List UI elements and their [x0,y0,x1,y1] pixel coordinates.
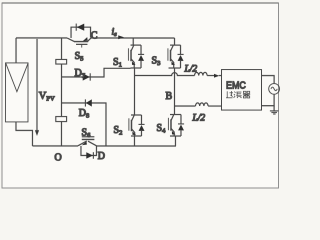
ground [273,106,275,111]
inductor L/2 lower [195,103,208,106]
diode D3 [180,45,182,54]
wire node B to L/2 lower [174,105,195,107]
wire node A to L/2 with hop over B [135,73,195,76]
diode D5 (antiparallel over S5) [71,27,91,38]
wire PV- bottom [16,122,33,146]
过 [226,91,233,98]
wire top rail right [91,37,175,39]
transistor S6 (series switch, bottom rail) [78,141,87,146]
label 过滤器 (filter) hand-drawn glyphs [226,91,250,98]
svg-text:O: O [54,152,61,163]
滤 [234,92,242,98]
figure frame [2,3,279,188]
diode D4 [180,115,182,124]
wire EMC to grid top [262,76,275,84]
wire PV+ riser [15,38,17,63]
transistor S1 (IGBT, bridge top-left) [132,38,134,45]
svg-text:L/2: L/2 [184,65,198,75]
svg-text:L/2: L/2 [191,114,205,124]
svg-text:B: B [165,91,172,102]
wire bottom rail right [96,145,175,147]
wire node A vertical (S1 emitter to S2 collector) [133,68,135,115]
transistor S4 (IGBT, bridge bottom-right) [170,114,181,116]
diode D8 (clamp, cap midpoint to node D) [61,103,106,146]
capacitor C2 (lower dc-link cap) [56,117,67,122]
wire bottom rail left [32,145,77,147]
AC grid source [269,83,280,94]
capacitor C1 (upper dc-link cap) [61,38,63,59]
diode D1 [140,45,142,54]
diode D2 [140,115,142,124]
wire top rail left [16,37,67,39]
wire node B vertical (S3 emitter to S4 collector) [173,68,175,114]
node is current arrow [118,35,124,39]
current arrow into EMC [214,74,219,78]
transistor S3 (IGBT, bridge top-right) [174,38,176,45]
diode D7 (clamp, cap midpoint to node A) [62,68,131,77]
wire cap midpoint [60,64,62,116]
svg-text:EMC: EMC [226,81,246,92]
node Vpv arrow [36,39,38,130]
diode D6 (antiparallel under S6) [81,146,97,156]
PV panel [5,63,28,122]
EMC filter box [221,70,261,111]
器 [243,91,250,98]
inductor L/2 upper [195,72,208,75]
wire grid bottom to EMC [261,94,274,105]
transistor S2 (IGBT, bridge bottom-left) [131,114,141,116]
svg-text:C: C [91,30,98,41]
transistor S5 (series switch, top rail) [67,38,75,42]
svg-text:D: D [98,151,105,162]
